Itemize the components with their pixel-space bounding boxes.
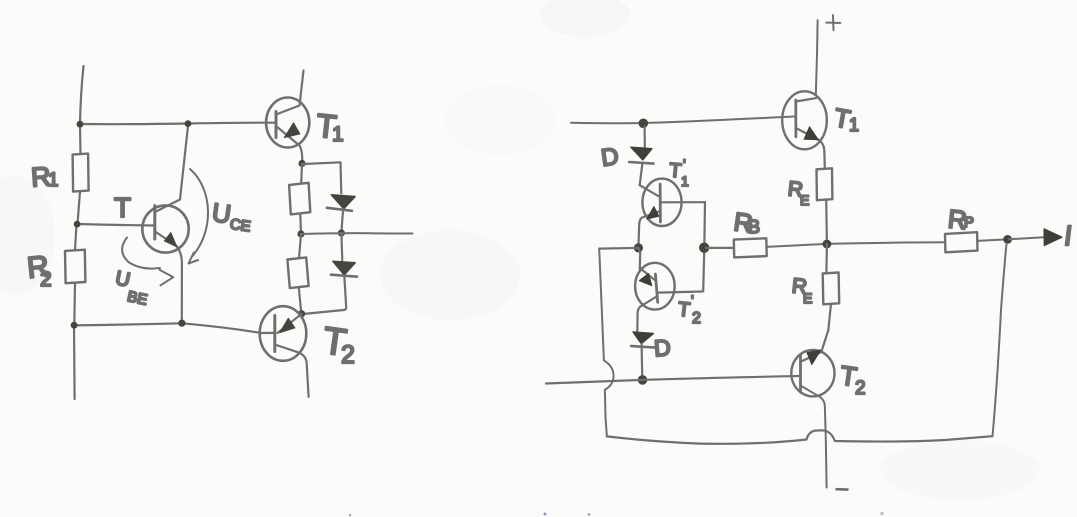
wire D bottom to input node [640,344,643,380]
resistor R2 [65,250,85,284]
label minus [837,488,848,491]
speck bottom edge 2 [588,513,591,516]
transistor T'2 collector arrow [639,274,652,286]
transistor T2 collector wire [801,330,828,361]
resistor RP [945,232,978,252]
wire RE bottom top lead [825,244,828,273]
wire RE bottom to T2 collector [828,304,831,330]
svg-text:2: 2 [341,341,355,369]
wire RB node to RB [706,247,734,249]
transistor T1 base bar [794,100,797,137]
transistor T'2 emitter wire [637,297,656,332]
transistor T2 collector arrow [807,350,821,365]
resistor RE bottom [823,273,840,305]
transistor T'1 collector entry [640,185,659,196]
transistor T'2 circle [635,263,675,310]
wire node to diode branch [304,162,342,193]
svg-text:E: E [803,290,812,306]
wire R1 top lead [79,124,82,154]
transistor T2 collector wire [278,314,302,333]
wire R2 bottom lead [73,283,76,325]
transistor T1 circle [782,91,827,149]
speck bottom edge 4 [349,514,352,517]
svg-text:1: 1 [681,173,689,189]
resistor R1 [73,154,89,192]
node RB tap [699,243,709,253]
resistor RB [734,238,767,257]
transistor T1 emitter arrow [804,127,818,140]
wire bypass vertical with hop [599,249,613,437]
wire T'1 node down to T'2 [638,248,640,270]
speck bottom edge 1 [544,513,547,516]
label plus [826,15,840,30]
svg-text:': ' [683,156,686,172]
transistor T emitter wire [155,232,182,324]
svg-text:E: E [800,192,809,208]
svg-text:2: 2 [40,268,52,291]
transistor T2 base bar [273,316,276,352]
wire left rail top stub [80,66,84,124]
transistor T2 circle [791,350,834,396]
wire Dtop to T'1 [640,164,643,185]
transistor T circle [142,205,188,252]
paper smudge 4 [880,440,1040,500]
node output mid [823,240,832,249]
node input diode tap [639,119,649,129]
paper smudge 3 [0,175,55,295]
wire mid rail to box2 [299,234,301,259]
svg-text:2: 2 [692,310,701,327]
svg-text:D: D [653,334,671,361]
diode D bottom [633,332,653,344]
transistor T2 base bar [799,356,802,393]
transistor T'1 base wire right [660,201,705,203]
wire RE top to node [825,200,828,244]
transistor T'1 emitter wire [638,211,660,248]
wire right return vertical [993,244,1007,437]
wire R1 bottom lead [78,191,81,224]
arrowhead U_BE [160,270,174,286]
wire bottom rail with hop [607,430,993,444]
node top rail mid [185,120,192,127]
transistor T emitter arrow [164,233,176,247]
node output [1003,235,1012,244]
svg-text:T: T [114,192,131,223]
svg-text:1: 1 [849,115,859,135]
wire node to resistor1 [300,164,303,184]
node T'1 emitter junction [634,243,643,252]
node bottom rail emitter [178,320,185,327]
transistor T2 emitter wire [275,345,309,397]
transistor T'1 base bar [659,184,662,222]
svg-text:P: P [964,214,974,231]
node mid rail right [338,229,345,236]
transistor T base bar [153,206,156,239]
transistor T collector wire [155,124,188,212]
wire RP to out node [977,239,1006,241]
transistor T1 base bar [275,112,278,138]
diode D top [631,147,652,160]
wire out node to arrow [1009,237,1044,239]
node lower input [638,375,648,385]
wire left rail bottom [73,325,76,399]
svg-text:CE: CE [229,216,252,236]
resistor chain box2 [287,257,308,288]
arc U_BE [122,238,160,269]
wire D1 to mid rail [341,212,343,233]
diode D2 [333,261,355,275]
diode D1 bar [327,208,352,211]
node R1 R2 junction [74,221,81,228]
diode D bottom bar [631,346,655,348]
wire RB to RP [767,242,946,247]
diode D1 [331,195,355,209]
svg-text:1: 1 [48,170,59,191]
wire node to diode Dtop [643,127,645,148]
transistor T'1 circle [642,179,681,226]
wire lower input line to T2 base [546,376,801,384]
diode D2 bar [331,275,357,277]
wire box1 to mid rail [299,214,302,234]
wire node to bypass [599,247,638,250]
node T2 collector [298,310,305,317]
wire middle rail to T base [77,224,155,226]
wire box2 to T2 collector node [299,288,302,314]
arc U_CE [190,169,208,257]
wire mid rail to diode D2 [340,233,343,261]
paper smudge 1 [380,230,520,320]
transistor T'2 base bar [655,274,657,302]
transistor T1 emitter wire [796,128,825,169]
node below T1 [299,160,306,167]
transistor T'2 collector entry [640,268,656,281]
node top rail left [77,121,84,128]
arrowhead U_CE [189,253,199,264]
paper smudge 5 [445,85,555,155]
svg-text:2: 2 [855,378,866,399]
transistor T1 collector wire [796,98,816,101]
paper smudge 2 [540,0,630,37]
resistor RE top [817,168,833,200]
wire bottom rail [74,323,261,333]
wire plus supply [816,20,818,95]
wire input line [571,116,796,123]
wire R2 top lead [75,224,77,250]
wire bases vertical [703,202,705,291]
transistor T2 base lead [261,332,275,334]
svg-text:1: 1 [332,123,344,146]
svg-text:T: T [677,298,691,321]
svg-text:B: B [748,217,760,237]
wire mid rail [301,232,413,235]
wire top rail to T1 base [80,123,276,125]
transistor T'1 emitter arrow [647,207,659,219]
transistor T1 emitter arrow [284,123,300,138]
transistor T2 circle [260,306,307,361]
transistor T1 circle [266,98,309,148]
svg-text:': ' [691,292,694,308]
wire D2 down and left to node [303,277,346,314]
output arrow [1044,229,1062,245]
transistor T1 emitter wire [276,126,302,163]
transistor T2 emitter wire [801,386,827,488]
node bottom rail left [71,322,78,329]
transistor T1 collector wire [276,71,304,115]
resistor chain box1 [289,183,310,215]
node mid rail left [297,230,304,237]
speck bottom edge 3 [880,512,883,515]
transistor T2 collector arrow [280,318,295,332]
diode D top bar [629,162,653,164]
transistor T'2 base wire right [659,292,703,293]
